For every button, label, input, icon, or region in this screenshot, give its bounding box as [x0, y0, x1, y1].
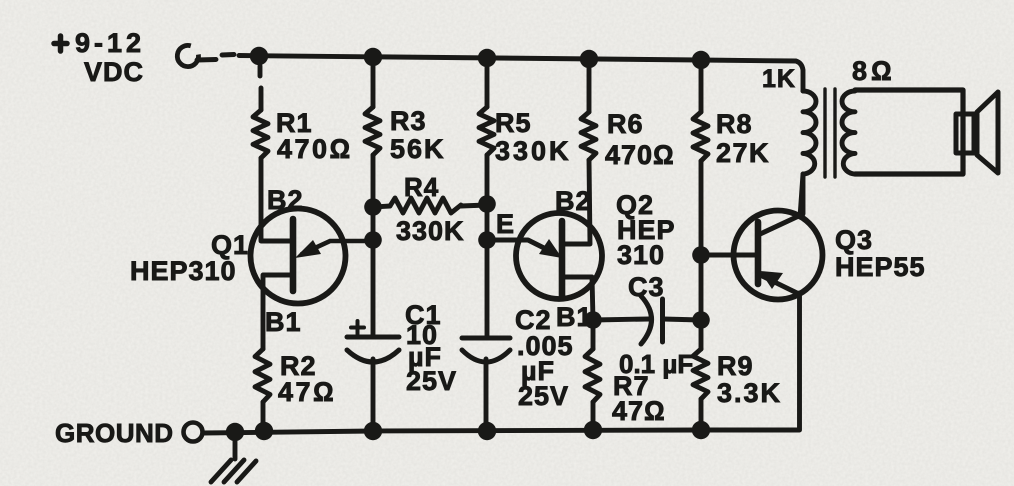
svg-text:Q3: Q3: [835, 225, 873, 255]
svg-text:HEP55: HEP55: [835, 252, 926, 282]
svg-text:470Ω: 470Ω: [605, 140, 675, 170]
svg-text:330K: 330K: [396, 216, 465, 246]
svg-text:9-12: 9-12: [75, 28, 145, 58]
svg-text:47Ω: 47Ω: [612, 396, 666, 426]
svg-text:R6: R6: [607, 109, 644, 139]
svg-text:R4: R4: [404, 172, 439, 202]
svg-text:56K: 56K: [390, 134, 446, 164]
svg-text:25V: 25V: [406, 366, 457, 396]
svg-text:VDC: VDC: [84, 57, 144, 87]
svg-text:3.3K: 3.3K: [717, 378, 782, 408]
svg-text:1K: 1K: [762, 65, 796, 93]
svg-text:8Ω: 8Ω: [852, 56, 896, 86]
svg-text:25V: 25V: [518, 381, 569, 411]
svg-text:330K: 330K: [495, 136, 572, 166]
svg-text:C3: C3: [628, 272, 665, 302]
svg-text:HEP310: HEP310: [130, 256, 237, 286]
svg-text:47Ω: 47Ω: [278, 377, 336, 407]
svg-text:R5: R5: [495, 108, 532, 138]
svg-text:R8: R8: [716, 109, 753, 139]
svg-text:B1: B1: [265, 307, 302, 337]
svg-text:310: 310: [617, 240, 665, 270]
svg-text:B2: B2: [267, 185, 304, 215]
svg-text:GROUND: GROUND: [55, 418, 174, 448]
svg-text:B2: B2: [555, 186, 592, 216]
svg-text:E: E: [496, 209, 515, 239]
svg-text:R3: R3: [390, 106, 427, 136]
svg-text:27K: 27K: [716, 138, 770, 168]
svg-text:R9: R9: [717, 351, 754, 381]
svg-text:470Ω: 470Ω: [277, 134, 353, 164]
svg-text:B1: B1: [556, 302, 593, 332]
